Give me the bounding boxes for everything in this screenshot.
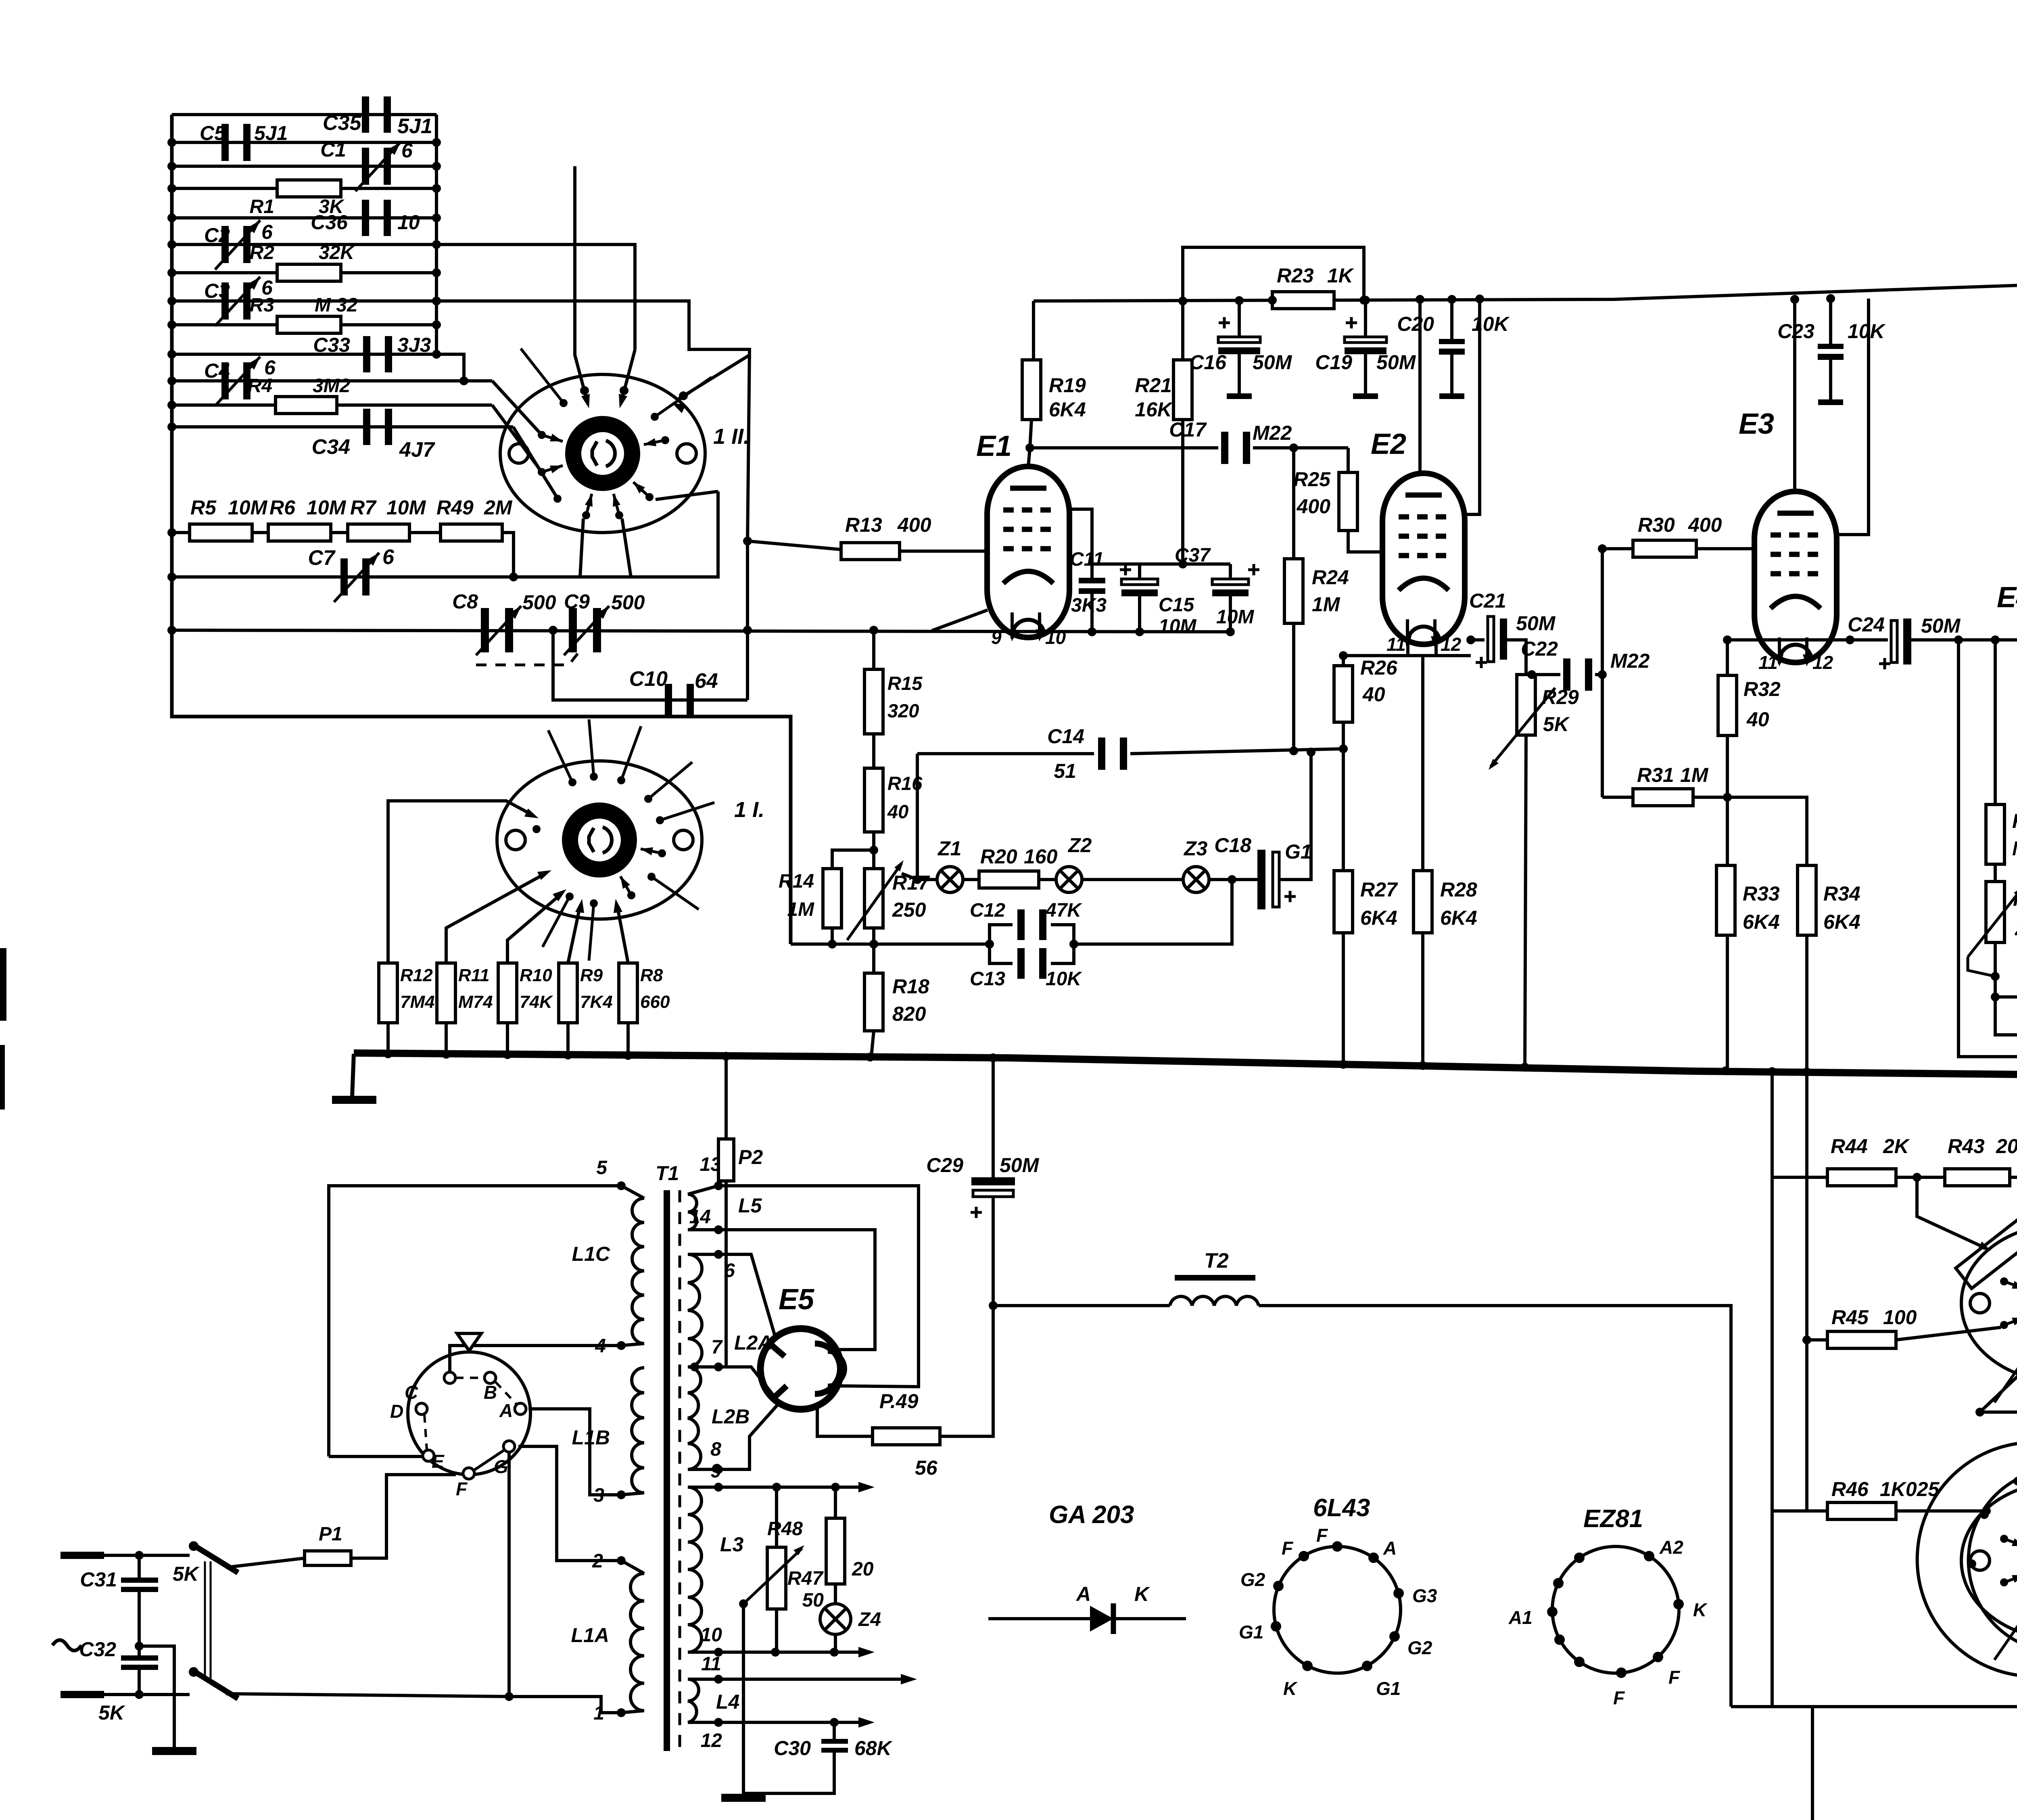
resistor R20 [979, 871, 1039, 888]
lamp Z4 [820, 1604, 851, 1634]
resistor R46 [1772, 1509, 1827, 1513]
resistor R31 [1633, 789, 1693, 806]
pentode E3 [1754, 491, 1837, 662]
wire E5 cathode to P49 [817, 1407, 873, 1436]
wire R46 to 2 II arc [1896, 1509, 1986, 1513]
resistor R49a (P.49) [873, 1428, 940, 1445]
svg-text:32K: 32K [319, 242, 355, 263]
wire R35 column [1994, 640, 1997, 804]
svg-text:C12: C12 [970, 900, 1005, 921]
svg-text:R15: R15 [887, 673, 923, 694]
scan margin marks [0, 948, 6, 1021]
rotary switch wafer 2 I. [1961, 1224, 2017, 1382]
svg-text:6K4: 6K4 [1049, 398, 1086, 421]
lamp Z4 [834, 1584, 837, 1604]
resistor R28 [1414, 871, 1432, 933]
svg-text:160: 160 [1024, 845, 1058, 868]
lamp Z2 [1056, 867, 1082, 892]
svg-text:C10: C10 [629, 667, 668, 691]
svg-text:7K4: 7K4 [580, 992, 613, 1012]
pin 12 [714, 1718, 723, 1727]
1 I upper contacts [568, 778, 576, 786]
svg-text:C4: C4 [204, 359, 230, 382]
wire C10 row [553, 630, 748, 700]
svg-text:A: A [1383, 1538, 1397, 1559]
svg-text:C20: C20 [1397, 313, 1434, 335]
resistor R27 [1334, 871, 1353, 933]
pentode E2 [1382, 473, 1465, 644]
svg-text:C13: C13 [970, 968, 1005, 990]
svg-text:10M: 10M [228, 496, 268, 519]
svg-text:R47: R47 [787, 1568, 824, 1589]
svg-text:E2: E2 [1371, 428, 1406, 460]
wire row C4 [172, 379, 492, 382]
resistor R15 [864, 669, 883, 734]
wire R29 to bus [1525, 735, 1526, 1067]
potentiometer R36 [1994, 864, 1997, 882]
resistor R8 [619, 963, 637, 1023]
winding L2A [688, 1254, 702, 1367]
svg-text:R12: R12 [400, 965, 433, 985]
mains switch blade lower [194, 1671, 238, 1699]
E6 box outline [1959, 640, 2017, 1471]
svg-text:A: A [499, 1400, 513, 1421]
resistor R33 [1716, 865, 1735, 935]
svg-text:Z3: Z3 [1183, 837, 1208, 860]
winding L1B [632, 1368, 644, 1493]
svg-text:E1: E1 [976, 430, 1012, 462]
rectifier tube E5 [760, 1329, 841, 1409]
svg-text:14: 14 [689, 1206, 711, 1228]
svg-text:R5: R5 [190, 496, 217, 519]
svg-text:T2: T2 [1204, 1249, 1229, 1273]
svg-text:G2: G2 [1240, 1569, 1265, 1590]
svg-text:2M: 2M [484, 496, 513, 519]
1 II notch contact from C3 row [678, 355, 750, 399]
svg-text:L2A: L2A [734, 1331, 772, 1354]
svg-text:64: 64 [695, 669, 718, 693]
svg-text:M74: M74 [458, 992, 493, 1012]
svg-text:P.49: P.49 [879, 1390, 919, 1413]
svg-text:5K: 5K [173, 1563, 200, 1585]
resistor R1 [277, 180, 341, 197]
winding L3 [688, 1487, 702, 1652]
svg-text:R34: R34 [1823, 882, 1860, 905]
svg-text:250: 250 [892, 899, 926, 921]
selector F-G link [473, 1450, 504, 1471]
1 I left contact wire from R12 top [388, 801, 532, 963]
svg-text:F: F [1668, 1667, 1681, 1688]
svg-text:A: A [1075, 1583, 1091, 1605]
svg-text:E3: E3 [1739, 408, 1774, 440]
capacitor C3 [221, 282, 229, 320]
wire C14 left leg [916, 754, 919, 880]
capacitor C9 [569, 608, 577, 652]
1 II lower-left contact from C34 row [553, 495, 562, 503]
rotary switch wafer 1 I. [497, 761, 702, 919]
svg-text:10M: 10M [307, 496, 347, 519]
capacitor C18 electrolytic [1257, 850, 1265, 909]
pin 9 [714, 1483, 723, 1492]
triode E1 [987, 466, 1069, 637]
svg-text:R27: R27 [1360, 878, 1398, 901]
wire row R2 [172, 271, 436, 274]
svg-text:400: 400 [897, 514, 931, 536]
wire E1 cathode [932, 610, 988, 631]
GA203 diode symbol [988, 1617, 1186, 1620]
wire R47 wiper down [742, 1604, 745, 1799]
capacitor C31 [138, 1555, 141, 1578]
wire R43/R44 node to 2 I [1917, 1177, 1985, 1248]
mains switch blade upper [194, 1545, 238, 1573]
resistor R30 [1602, 547, 1633, 550]
svg-text:6K4: 6K4 [1360, 907, 1397, 929]
svg-text:C23: C23 [1777, 320, 1814, 343]
capacitor C16 [1235, 296, 1244, 305]
capacitor C8 [481, 608, 489, 652]
resistor R3 [277, 316, 341, 333]
resistor R25 [1347, 448, 1350, 472]
svg-text:7M4: 7M4 [400, 992, 435, 1012]
capacitor C13 [1017, 948, 1025, 979]
resistor R19 [1022, 360, 1041, 420]
capacitor C1 [362, 148, 369, 185]
capacitor C17 [1221, 432, 1228, 464]
resistor R31 [1602, 796, 1633, 799]
svg-text:C35: C35 [323, 111, 361, 135]
svg-text:R23: R23 [1277, 264, 1314, 287]
svg-text:47K: 47K [1045, 900, 1082, 921]
resistor R21 [1173, 360, 1192, 420]
svg-text:L4: L4 [716, 1690, 739, 1713]
svg-text:200: 200 [1996, 1135, 2017, 1158]
resistor R21 [1181, 301, 1184, 360]
svg-text:L2B: L2B [712, 1405, 750, 1428]
wire to R9 [568, 906, 580, 963]
svg-text:R1: R1 [250, 196, 274, 217]
svg-text:R31: R31 [1637, 764, 1674, 786]
svg-text:M22: M22 [1253, 422, 1292, 444]
svg-text:L5: L5 [738, 1194, 762, 1217]
resistor R34 [1798, 865, 1816, 935]
capacitor C33 [363, 336, 370, 372]
svg-text:1M: 1M [1680, 764, 1709, 786]
svg-text:G3: G3 [1412, 1585, 1437, 1606]
svg-text:40: 40 [887, 801, 908, 822]
pin 10 [714, 1648, 723, 1657]
resistor R14 [823, 869, 841, 928]
svg-text:9: 9 [991, 627, 1002, 648]
1 II left contacts [538, 431, 546, 439]
resistor R35 [1986, 804, 2004, 864]
svg-text:3J3: 3J3 [397, 334, 431, 356]
selector pin C [444, 1372, 455, 1383]
svg-text:10: 10 [397, 211, 420, 234]
svg-text:6K4: 6K4 [1743, 911, 1780, 933]
svg-text:L1A: L1A [571, 1624, 609, 1647]
pin 1 [617, 1708, 626, 1717]
diode E6 loop [1995, 997, 2017, 1035]
selector marker triangle [457, 1333, 481, 1351]
svg-text:R48: R48 [767, 1518, 803, 1540]
winding L2B [688, 1367, 701, 1469]
switch link [204, 1561, 206, 1678]
pin 2 [617, 1556, 626, 1565]
svg-text:G1: G1 [1239, 1621, 1263, 1642]
wire row R1 [172, 187, 436, 190]
svg-text:500: 500 [611, 591, 645, 614]
resistor R47 potentiometer [775, 1487, 778, 1547]
svg-text:6: 6 [401, 139, 413, 162]
resistor R11 [437, 963, 455, 1023]
wire R34 column below bus [1805, 1072, 1808, 1511]
svg-text:74K: 74K [520, 992, 553, 1012]
svg-text:R10: R10 [520, 965, 552, 985]
svg-text:C1: C1 [320, 138, 346, 161]
svg-text:10M: 10M [1216, 606, 1254, 628]
svg-text:R25: R25 [1293, 468, 1331, 491]
svg-text:C15: C15 [1159, 594, 1194, 616]
svg-text:K: K [1134, 1583, 1150, 1605]
svg-text:1K: 1K [1327, 264, 1355, 287]
svg-text:1K025: 1K025 [1880, 1478, 1940, 1500]
2 I wiper sectors [1956, 1219, 2017, 1288]
svg-text:R44: R44 [1831, 1135, 1868, 1158]
wire selector G down [507, 1452, 511, 1697]
capacitor C12 [1017, 909, 1025, 940]
wire C12/C13 to Z3 node [1074, 880, 1232, 944]
svg-text:C5: C5 [200, 122, 226, 144]
capacitor C35 [362, 96, 369, 133]
wiper tie R36 [1968, 957, 1995, 976]
svg-text:F: F [1613, 1687, 1625, 1708]
svg-text:C3: C3 [204, 280, 230, 302]
resistor R25 [1339, 472, 1357, 531]
svg-text:C16: C16 [1189, 351, 1227, 374]
wire E1 g2 tap [1069, 509, 1092, 564]
svg-text:C7: C7 [308, 546, 336, 570]
capacitor C14 [1098, 738, 1105, 770]
AC symbol [52, 1640, 81, 1651]
svg-text:L1C: L1C [572, 1243, 610, 1265]
winding L5 [688, 1194, 697, 1230]
box bottom [1731, 1705, 2017, 1708]
svg-text:L3: L3 [720, 1533, 744, 1556]
resistor R46 [1827, 1502, 1896, 1519]
svg-text:C33: C33 [313, 334, 350, 356]
wire R13 node vertical [746, 541, 749, 700]
wire E5 loop from pin 14 [718, 1230, 875, 1350]
svg-text:R19: R19 [1049, 374, 1086, 397]
resistor R16 [864, 768, 883, 832]
svg-text:5J1: 5J1 [254, 122, 288, 144]
selector pin B [484, 1372, 496, 1383]
wire row C5 [172, 141, 436, 144]
capacitor C7 [340, 558, 348, 596]
svg-text:1M: 1M [1312, 593, 1340, 616]
potentiometer R29 [1517, 675, 1535, 735]
resistor R41 [2010, 1176, 2017, 1179]
svg-text:G1: G1 [1376, 1678, 1401, 1699]
wire E3 anode [1793, 299, 1796, 491]
resistor R43 [1896, 1176, 1945, 1179]
resistor R49 [441, 524, 502, 541]
svg-text:Z2: Z2 [1067, 834, 1092, 857]
svg-text:5K: 5K [1543, 713, 1570, 736]
svg-text:5J1: 5J1 [397, 115, 432, 138]
ground bar bottom [721, 1794, 766, 1802]
svg-text:R33: R33 [1743, 882, 1780, 905]
loop wire over R23 [1183, 247, 1364, 301]
resistor R6 [268, 524, 331, 541]
svg-text:C31: C31 [80, 1568, 117, 1591]
svg-text:M22: M22 [1610, 650, 1650, 672]
svg-text:R32: R32 [1743, 678, 1781, 700]
svg-text:R2: R2 [250, 242, 275, 263]
wire E2 anode to rail [1418, 299, 1422, 473]
wire E2 cathode node [1408, 642, 1471, 656]
lamp Z3 [1183, 867, 1209, 892]
svg-text:F: F [456, 1478, 468, 1499]
resistor R34 [1727, 797, 1807, 865]
svg-text:10M: 10M [1159, 616, 1196, 637]
capacitor C4 [221, 362, 229, 399]
svg-text:C14: C14 [1047, 725, 1084, 748]
wire T2 to output box [1259, 1306, 1731, 1707]
winding L1C [632, 1198, 644, 1344]
selector pin D [416, 1403, 427, 1415]
wire row C34 [172, 425, 513, 428]
choke T2 [993, 1304, 1170, 1307]
svg-text:A1: A1 [1508, 1607, 1533, 1628]
svg-text:R46: R46 [1831, 1478, 1869, 1500]
svg-text:500: 500 [522, 591, 556, 614]
svg-text:R11: R11 [458, 965, 489, 985]
resistor R4 [276, 397, 337, 414]
svg-text:C22: C22 [1521, 637, 1558, 660]
pin 7 [714, 1362, 723, 1371]
resistor R26 [1342, 656, 1345, 666]
svg-text:C8: C8 [452, 590, 478, 613]
capacitor C21 [1466, 635, 1475, 644]
potentiometer R17 [864, 869, 883, 928]
potentiometer R47 [767, 1547, 786, 1609]
svg-text:C36: C36 [311, 211, 348, 234]
resistor R45 [1802, 1335, 1811, 1344]
node row caps top [1092, 562, 1230, 566]
capacitor C15 [1138, 564, 1141, 579]
wire R16 to R14/R17 [832, 832, 874, 869]
wire C12 branch [990, 925, 1013, 944]
svg-text:12: 12 [701, 1730, 722, 1751]
resistor R44 [1772, 1176, 1827, 1179]
wire row C35 [172, 113, 436, 116]
capacitor C10 [665, 684, 672, 716]
svg-text:16K: 16K [1135, 398, 1173, 421]
svg-text:R49: R49 [436, 496, 474, 519]
svg-text:C24: C24 [1848, 613, 1885, 636]
wire row R4 [172, 403, 492, 407]
svg-text:6: 6 [261, 221, 273, 243]
resistor R12 [379, 963, 397, 1023]
svg-text:R4: R4 [248, 375, 272, 397]
svg-text:G1: G1 [1285, 840, 1312, 863]
chassis ground symbol [352, 1054, 354, 1097]
svg-text:F: F [1282, 1538, 1294, 1559]
svg-text:660: 660 [640, 992, 670, 1012]
1 II top contact wires from C1,C2 rows [575, 166, 587, 402]
resistor R32 [1718, 675, 1737, 736]
svg-text:50M: 50M [1376, 351, 1416, 374]
svg-text:400: 400 [1297, 495, 1331, 518]
winding L1A [631, 1573, 644, 1711]
svg-text:R6: R6 [269, 496, 296, 519]
resistor R7 [348, 524, 409, 541]
svg-text:Z1: Z1 [937, 837, 961, 860]
pin 13 [714, 1181, 723, 1190]
resistor R24 [1284, 559, 1303, 623]
svg-text:GA 203: GA 203 [1049, 1501, 1134, 1529]
svg-text:68K: 68K [854, 1737, 893, 1759]
node Z1/R17 [902, 873, 917, 880]
svg-text:M 32: M 32 [315, 295, 358, 316]
svg-text:1 II.: 1 II. [713, 424, 750, 449]
resistor R37 [1991, 993, 2000, 1001]
selector pin A [515, 1403, 526, 1415]
wire row C7 [172, 491, 718, 577]
wire C18 to C14 row [1279, 754, 1311, 880]
svg-text:4J7: 4J7 [399, 438, 435, 462]
2 II outer arcs [1917, 1442, 2017, 1676]
svg-text:C9: C9 [564, 590, 590, 613]
capacitor C37 [1229, 564, 1232, 579]
svg-text:50M: 50M [1253, 351, 1292, 374]
svg-text:C29: C29 [926, 1154, 963, 1176]
wire R45 to 2 I contact [1896, 1327, 2001, 1340]
capacitor C30 [833, 1722, 836, 1739]
wire E1 anode to C17 [1030, 446, 1218, 449]
svg-text:R29: R29 [1542, 686, 1579, 708]
capacitor C5 [221, 124, 229, 161]
svg-text:C21: C21 [1469, 589, 1506, 612]
selector pin G [503, 1441, 515, 1452]
resistor R5 [190, 524, 252, 541]
voltage selector disc [408, 1352, 530, 1475]
svg-text:400: 400 [1688, 514, 1722, 536]
svg-text:6: 6 [382, 545, 395, 569]
svg-text:R20: R20 [980, 845, 1017, 868]
svg-text:10K: 10K [1046, 968, 1082, 990]
svg-text:R18: R18 [892, 975, 929, 998]
selector pin F [463, 1468, 474, 1479]
svg-text:C32: C32 [79, 1638, 116, 1661]
lamp Z1 [937, 867, 963, 892]
potentiometer R36 [1986, 882, 2004, 942]
svg-text:P1: P1 [319, 1523, 342, 1545]
resistor R24 [1292, 448, 1295, 559]
svg-text:50M: 50M [1921, 614, 1961, 637]
wire to R10 [507, 894, 562, 963]
wire selector E feed [329, 1455, 423, 1458]
wire 2 I wiper row [1980, 1360, 2017, 1412]
svg-text:C2: C2 [204, 224, 230, 247]
capacitor C29 [992, 1058, 995, 1178]
resistor R23 [1272, 292, 1334, 309]
resistor R48 [834, 1487, 837, 1518]
svg-text:R8: R8 [640, 965, 663, 985]
wire R19 top [1032, 301, 1035, 360]
wire row C36 [172, 216, 436, 219]
